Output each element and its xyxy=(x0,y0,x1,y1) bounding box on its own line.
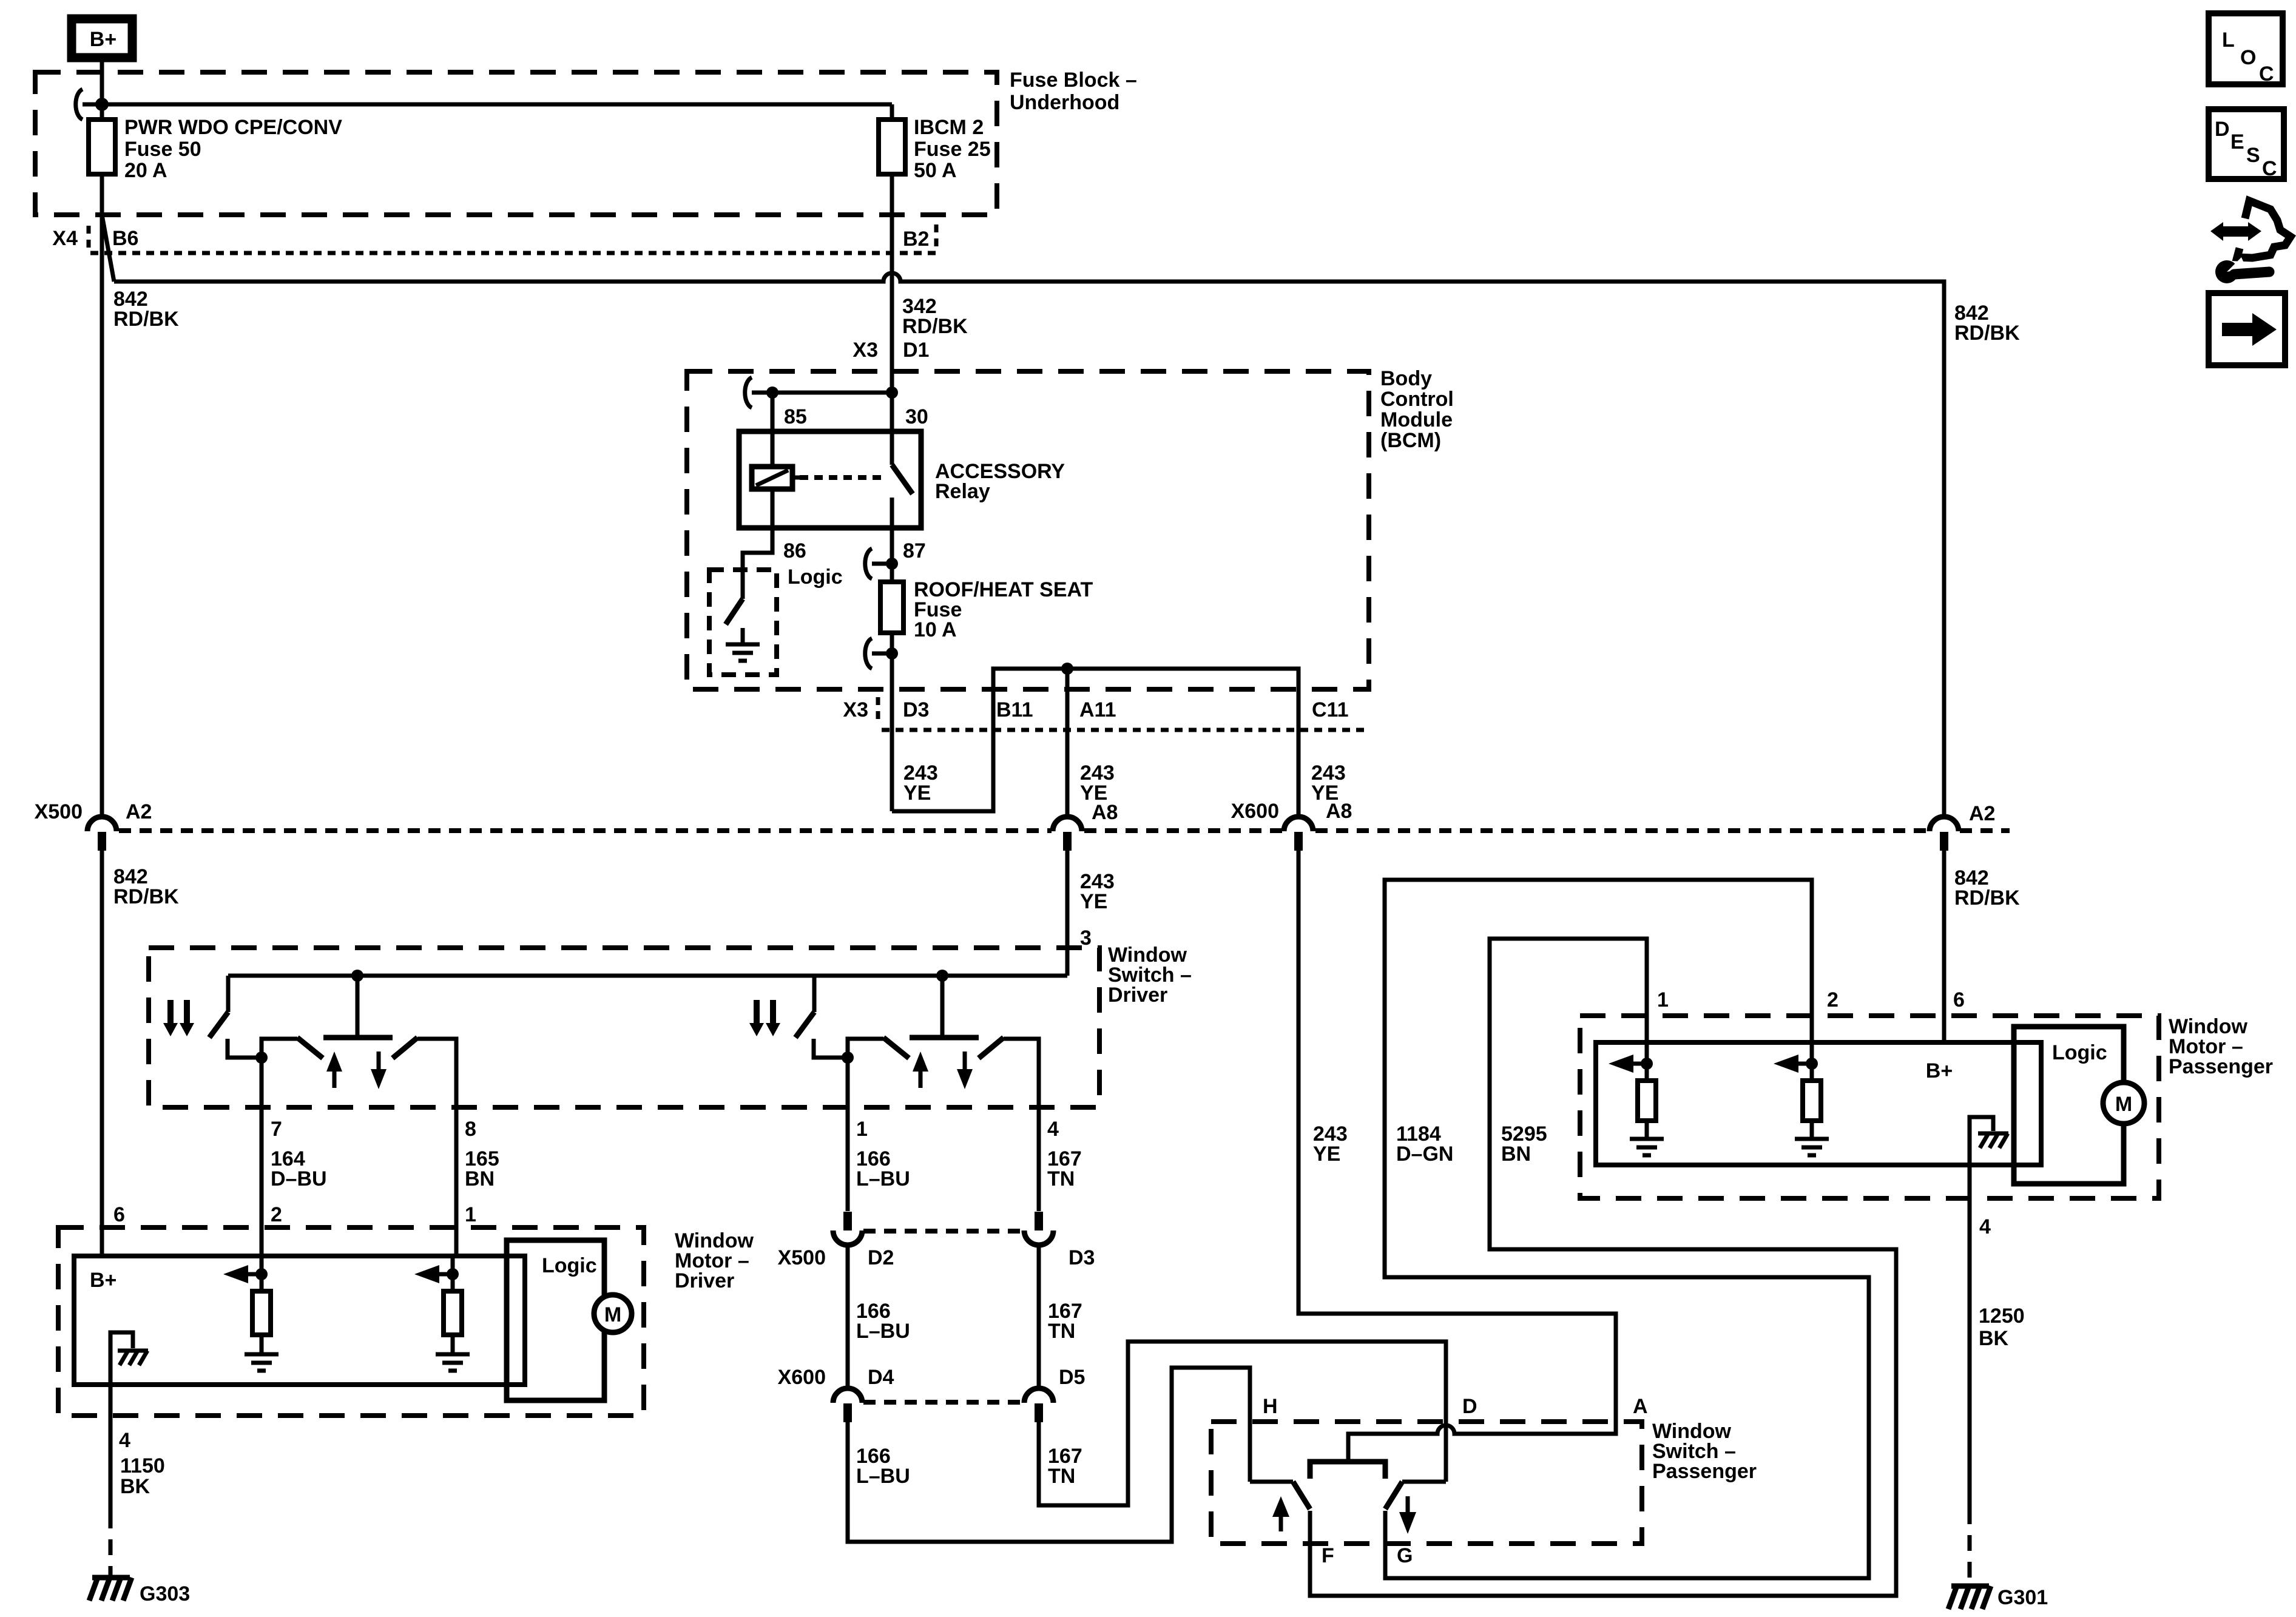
svg-text:Passenger: Passenger xyxy=(2169,1055,2273,1078)
svg-text:D3: D3 xyxy=(1069,1246,1095,1269)
svg-text:2: 2 xyxy=(271,1203,282,1226)
svg-text:L–BU: L–BU xyxy=(856,1167,910,1190)
svg-text:Driver: Driver xyxy=(1108,984,1167,1007)
svg-text:TN: TN xyxy=(1048,1320,1075,1343)
svg-text:1: 1 xyxy=(1657,988,1669,1011)
svg-text:X3: X3 xyxy=(843,698,868,721)
svg-text:A2: A2 xyxy=(1969,802,1995,825)
svg-text:D: D xyxy=(1462,1395,1477,1418)
svg-text:(BCM): (BCM) xyxy=(1380,429,1441,452)
svg-text:S: S xyxy=(2246,144,2260,167)
svg-text:A11: A11 xyxy=(1079,698,1116,721)
svg-text:20 A: 20 A xyxy=(124,159,167,182)
svg-text:8: 8 xyxy=(465,1118,476,1141)
svg-text:L–BU: L–BU xyxy=(856,1465,910,1488)
svg-text:6: 6 xyxy=(1953,988,1965,1011)
svg-text:Logic: Logic xyxy=(2052,1041,2107,1064)
svg-text:M: M xyxy=(2115,1093,2132,1116)
svg-text:X500: X500 xyxy=(778,1246,826,1269)
svg-text:TN: TN xyxy=(1047,1167,1075,1190)
svg-text:D3: D3 xyxy=(903,698,929,721)
svg-text:Fuse 50: Fuse 50 xyxy=(124,138,201,161)
svg-text:D2: D2 xyxy=(868,1246,894,1269)
svg-text:D1: D1 xyxy=(903,339,929,362)
svg-text:PWR WDO CPE/CONV: PWR WDO CPE/CONV xyxy=(124,116,342,139)
svg-text:D5: D5 xyxy=(1059,1366,1085,1389)
svg-text:6: 6 xyxy=(113,1203,125,1226)
svg-text:Relay: Relay xyxy=(935,480,990,503)
svg-text:C11: C11 xyxy=(1312,698,1349,721)
svg-text:G: G xyxy=(1397,1544,1413,1567)
svg-text:7: 7 xyxy=(271,1118,282,1141)
svg-text:RD/BK: RD/BK xyxy=(902,315,968,338)
svg-text:X3: X3 xyxy=(853,339,878,362)
svg-text:D–GN: D–GN xyxy=(1396,1143,1453,1166)
svg-text:X600: X600 xyxy=(778,1366,826,1389)
svg-text:D: D xyxy=(2215,118,2230,141)
svg-text:Logic: Logic xyxy=(542,1254,597,1277)
svg-text:1150: 1150 xyxy=(120,1454,165,1477)
svg-text:BN: BN xyxy=(1501,1143,1531,1166)
svg-text:B+: B+ xyxy=(90,28,116,51)
svg-text:X600: X600 xyxy=(1231,800,1279,823)
svg-text:IBCM 2: IBCM 2 xyxy=(914,116,984,139)
svg-text:A8: A8 xyxy=(1326,800,1352,823)
svg-text:G303: G303 xyxy=(140,1582,190,1605)
svg-text:L: L xyxy=(2222,29,2235,52)
svg-text:2: 2 xyxy=(1827,988,1838,1011)
svg-text:YE: YE xyxy=(1080,890,1107,913)
svg-text:RD/BK: RD/BK xyxy=(113,308,179,331)
svg-text:4: 4 xyxy=(1979,1215,1991,1238)
svg-text:G301: G301 xyxy=(1997,1586,2048,1609)
svg-text:X500: X500 xyxy=(35,800,83,823)
svg-text:C: C xyxy=(2259,62,2274,86)
svg-text:Body: Body xyxy=(1380,367,1432,390)
svg-text:H: H xyxy=(1263,1395,1278,1418)
svg-text:86: 86 xyxy=(783,539,806,562)
svg-text:1: 1 xyxy=(856,1118,868,1141)
svg-text:BK: BK xyxy=(1979,1327,2009,1350)
svg-text:TN: TN xyxy=(1048,1465,1075,1488)
svg-text:Module: Module xyxy=(1380,408,1453,431)
svg-text:A: A xyxy=(1633,1395,1648,1418)
svg-text:B11: B11 xyxy=(996,698,1033,721)
svg-text:B2: B2 xyxy=(903,228,929,251)
svg-text:O: O xyxy=(2240,46,2256,69)
svg-text:4: 4 xyxy=(1047,1118,1059,1141)
svg-text:87: 87 xyxy=(903,539,926,562)
svg-text:M: M xyxy=(604,1303,621,1326)
svg-text:C: C xyxy=(2262,157,2277,180)
svg-text:1250: 1250 xyxy=(1979,1305,2025,1328)
svg-text:RD/BK: RD/BK xyxy=(1954,322,2020,345)
svg-text:E: E xyxy=(2230,130,2244,154)
svg-text:B+: B+ xyxy=(90,1269,116,1292)
svg-text:F: F xyxy=(1322,1544,1334,1567)
svg-text:Driver: Driver xyxy=(675,1269,734,1292)
svg-text:BK: BK xyxy=(120,1475,150,1498)
svg-text:A2: A2 xyxy=(126,800,152,823)
svg-text:Passenger: Passenger xyxy=(1652,1460,1757,1483)
svg-text:RD/BK: RD/BK xyxy=(1954,886,2020,910)
svg-text:Control: Control xyxy=(1380,388,1454,411)
svg-text:Underhood: Underhood xyxy=(1010,91,1119,114)
svg-text:RD/BK: RD/BK xyxy=(113,885,179,908)
svg-text:Fuse 25: Fuse 25 xyxy=(914,138,991,161)
svg-text:BN: BN xyxy=(465,1167,495,1190)
svg-text:Logic: Logic xyxy=(788,565,843,589)
svg-text:4: 4 xyxy=(119,1429,130,1452)
svg-text:A8: A8 xyxy=(1092,801,1118,824)
svg-text:B6: B6 xyxy=(112,227,138,250)
svg-text:30: 30 xyxy=(905,405,928,428)
svg-text:10 A: 10 A xyxy=(914,618,957,641)
svg-text:YE: YE xyxy=(1313,1143,1340,1166)
svg-text:50 A: 50 A xyxy=(914,159,957,182)
svg-text:YE: YE xyxy=(903,781,931,805)
svg-text:D–BU: D–BU xyxy=(271,1167,327,1190)
svg-text:Fuse Block –: Fuse Block – xyxy=(1010,69,1137,92)
svg-text:85: 85 xyxy=(784,405,807,428)
svg-text:L–BU: L–BU xyxy=(856,1320,910,1343)
svg-text:D4: D4 xyxy=(868,1366,894,1389)
svg-text:1: 1 xyxy=(465,1203,476,1226)
svg-text:X4: X4 xyxy=(52,227,78,250)
svg-text:B+: B+ xyxy=(1926,1059,1953,1082)
